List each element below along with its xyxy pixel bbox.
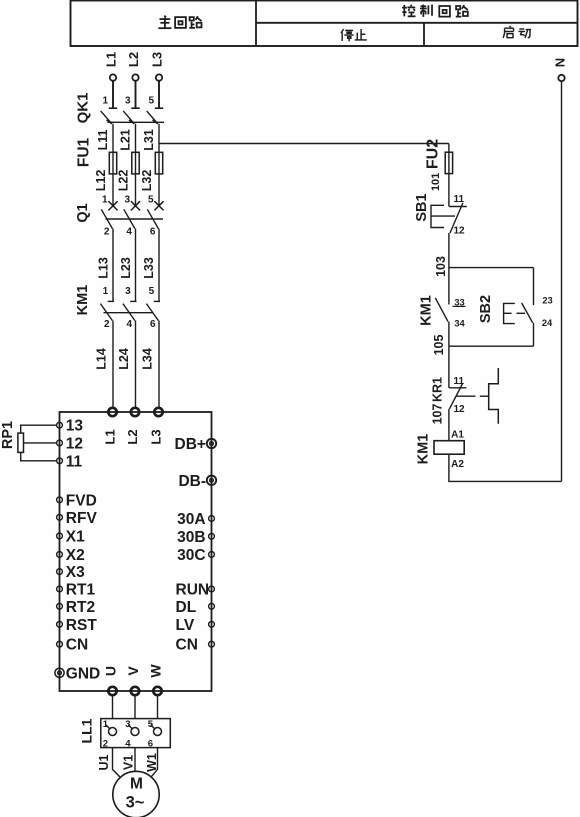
svg-text:105: 105	[432, 335, 446, 356]
svg-text:L3: L3	[150, 52, 165, 67]
svg-text:13: 13	[66, 418, 84, 435]
svg-text:KR1: KR1	[430, 377, 444, 402]
svg-text:Q1: Q1	[75, 203, 91, 222]
svg-text:FVD: FVD	[66, 492, 97, 509]
svg-text:30B: 30B	[177, 529, 205, 546]
svg-text:L13: L13	[97, 257, 111, 279]
svg-text:5: 5	[148, 96, 154, 107]
svg-text:12: 12	[66, 435, 83, 452]
svg-text:GND: GND	[66, 665, 100, 682]
svg-text:W: W	[148, 664, 164, 678]
svg-text:23: 23	[542, 295, 552, 305]
svg-text:6: 6	[148, 738, 153, 749]
svg-text:A1: A1	[451, 430, 464, 441]
svg-text:L21: L21	[119, 129, 133, 151]
svg-text:12: 12	[454, 226, 466, 237]
svg-text:3: 3	[124, 194, 130, 205]
svg-text:L3: L3	[149, 429, 164, 444]
svg-text:LL1: LL1	[79, 718, 95, 743]
svg-text:L2: L2	[125, 429, 140, 444]
svg-text:3: 3	[125, 286, 131, 297]
svg-text:FU2: FU2	[425, 139, 442, 169]
svg-text:L2: L2	[126, 52, 141, 67]
svg-text:M: M	[130, 776, 143, 793]
svg-text:X1: X1	[66, 528, 85, 545]
svg-text:5: 5	[148, 719, 154, 730]
svg-text:L1: L1	[104, 52, 119, 67]
svg-text:5: 5	[148, 194, 154, 205]
svg-text:4: 4	[126, 227, 132, 238]
svg-text:DB-: DB-	[178, 473, 206, 490]
svg-text:L11: L11	[96, 130, 110, 151]
svg-text:30A: 30A	[177, 511, 205, 528]
svg-text:QK1: QK1	[74, 93, 91, 124]
svg-text:12: 12	[454, 404, 466, 415]
svg-text:101: 101	[430, 173, 442, 191]
svg-text:2: 2	[103, 738, 108, 749]
svg-text:X2: X2	[66, 547, 85, 564]
svg-text:L1: L1	[103, 429, 118, 444]
svg-text:CN: CN	[66, 637, 88, 654]
svg-text:U1: U1	[97, 754, 111, 770]
svg-text:A2: A2	[451, 459, 464, 470]
svg-text:SB1: SB1	[414, 193, 430, 221]
svg-text:SB2: SB2	[478, 295, 494, 323]
svg-text:6: 6	[150, 319, 156, 330]
svg-text:DL: DL	[176, 599, 197, 616]
svg-text:DB+: DB+	[175, 436, 206, 453]
svg-text:11: 11	[66, 453, 83, 470]
svg-text:2: 2	[104, 319, 110, 330]
svg-text:3: 3	[125, 96, 131, 107]
svg-text:11: 11	[454, 376, 465, 387]
svg-text:103: 103	[434, 256, 448, 277]
svg-text:2: 2	[104, 227, 110, 238]
svg-text:24: 24	[542, 318, 553, 328]
svg-text:V: V	[125, 666, 141, 676]
svg-text:KM1: KM1	[416, 434, 432, 465]
svg-text:FU1: FU1	[75, 137, 92, 167]
svg-text:1: 1	[103, 286, 109, 297]
svg-text:CN: CN	[176, 637, 198, 654]
svg-text:4: 4	[125, 738, 131, 749]
svg-text:RUN: RUN	[176, 582, 210, 599]
svg-text:L23: L23	[119, 257, 133, 279]
svg-text:RT2: RT2	[66, 599, 95, 616]
svg-text:RP1: RP1	[0, 421, 16, 449]
svg-text:X3: X3	[66, 564, 85, 581]
svg-text:107: 107	[430, 404, 444, 425]
svg-text:RST: RST	[66, 617, 98, 634]
svg-text:L12: L12	[94, 170, 108, 192]
svg-text:N: N	[553, 58, 568, 67]
svg-text:5: 5	[149, 286, 155, 297]
svg-text:1: 1	[103, 719, 109, 730]
svg-text:L24: L24	[117, 348, 131, 370]
svg-text:LV: LV	[176, 617, 195, 634]
svg-text:KM1: KM1	[75, 285, 91, 316]
svg-text:1: 1	[102, 194, 108, 205]
svg-text:KM1: KM1	[419, 295, 435, 326]
svg-text:RFV: RFV	[66, 510, 98, 527]
svg-text:V1: V1	[121, 755, 135, 770]
svg-text:L22: L22	[117, 170, 131, 192]
svg-text:L32: L32	[140, 170, 154, 192]
svg-text:RT1: RT1	[66, 582, 96, 599]
svg-text:L31: L31	[142, 129, 156, 151]
svg-text:1: 1	[102, 96, 108, 107]
svg-text:4: 4	[127, 319, 133, 330]
svg-text:L34: L34	[141, 348, 155, 370]
svg-text:3: 3	[125, 719, 130, 730]
svg-text:U: U	[103, 666, 119, 676]
svg-text:34: 34	[454, 319, 465, 329]
svg-text:30C: 30C	[177, 547, 205, 564]
svg-text:L33: L33	[142, 257, 156, 279]
svg-text:L14: L14	[95, 348, 109, 370]
svg-text:6: 6	[150, 227, 156, 238]
svg-text:3~: 3~	[126, 793, 145, 811]
